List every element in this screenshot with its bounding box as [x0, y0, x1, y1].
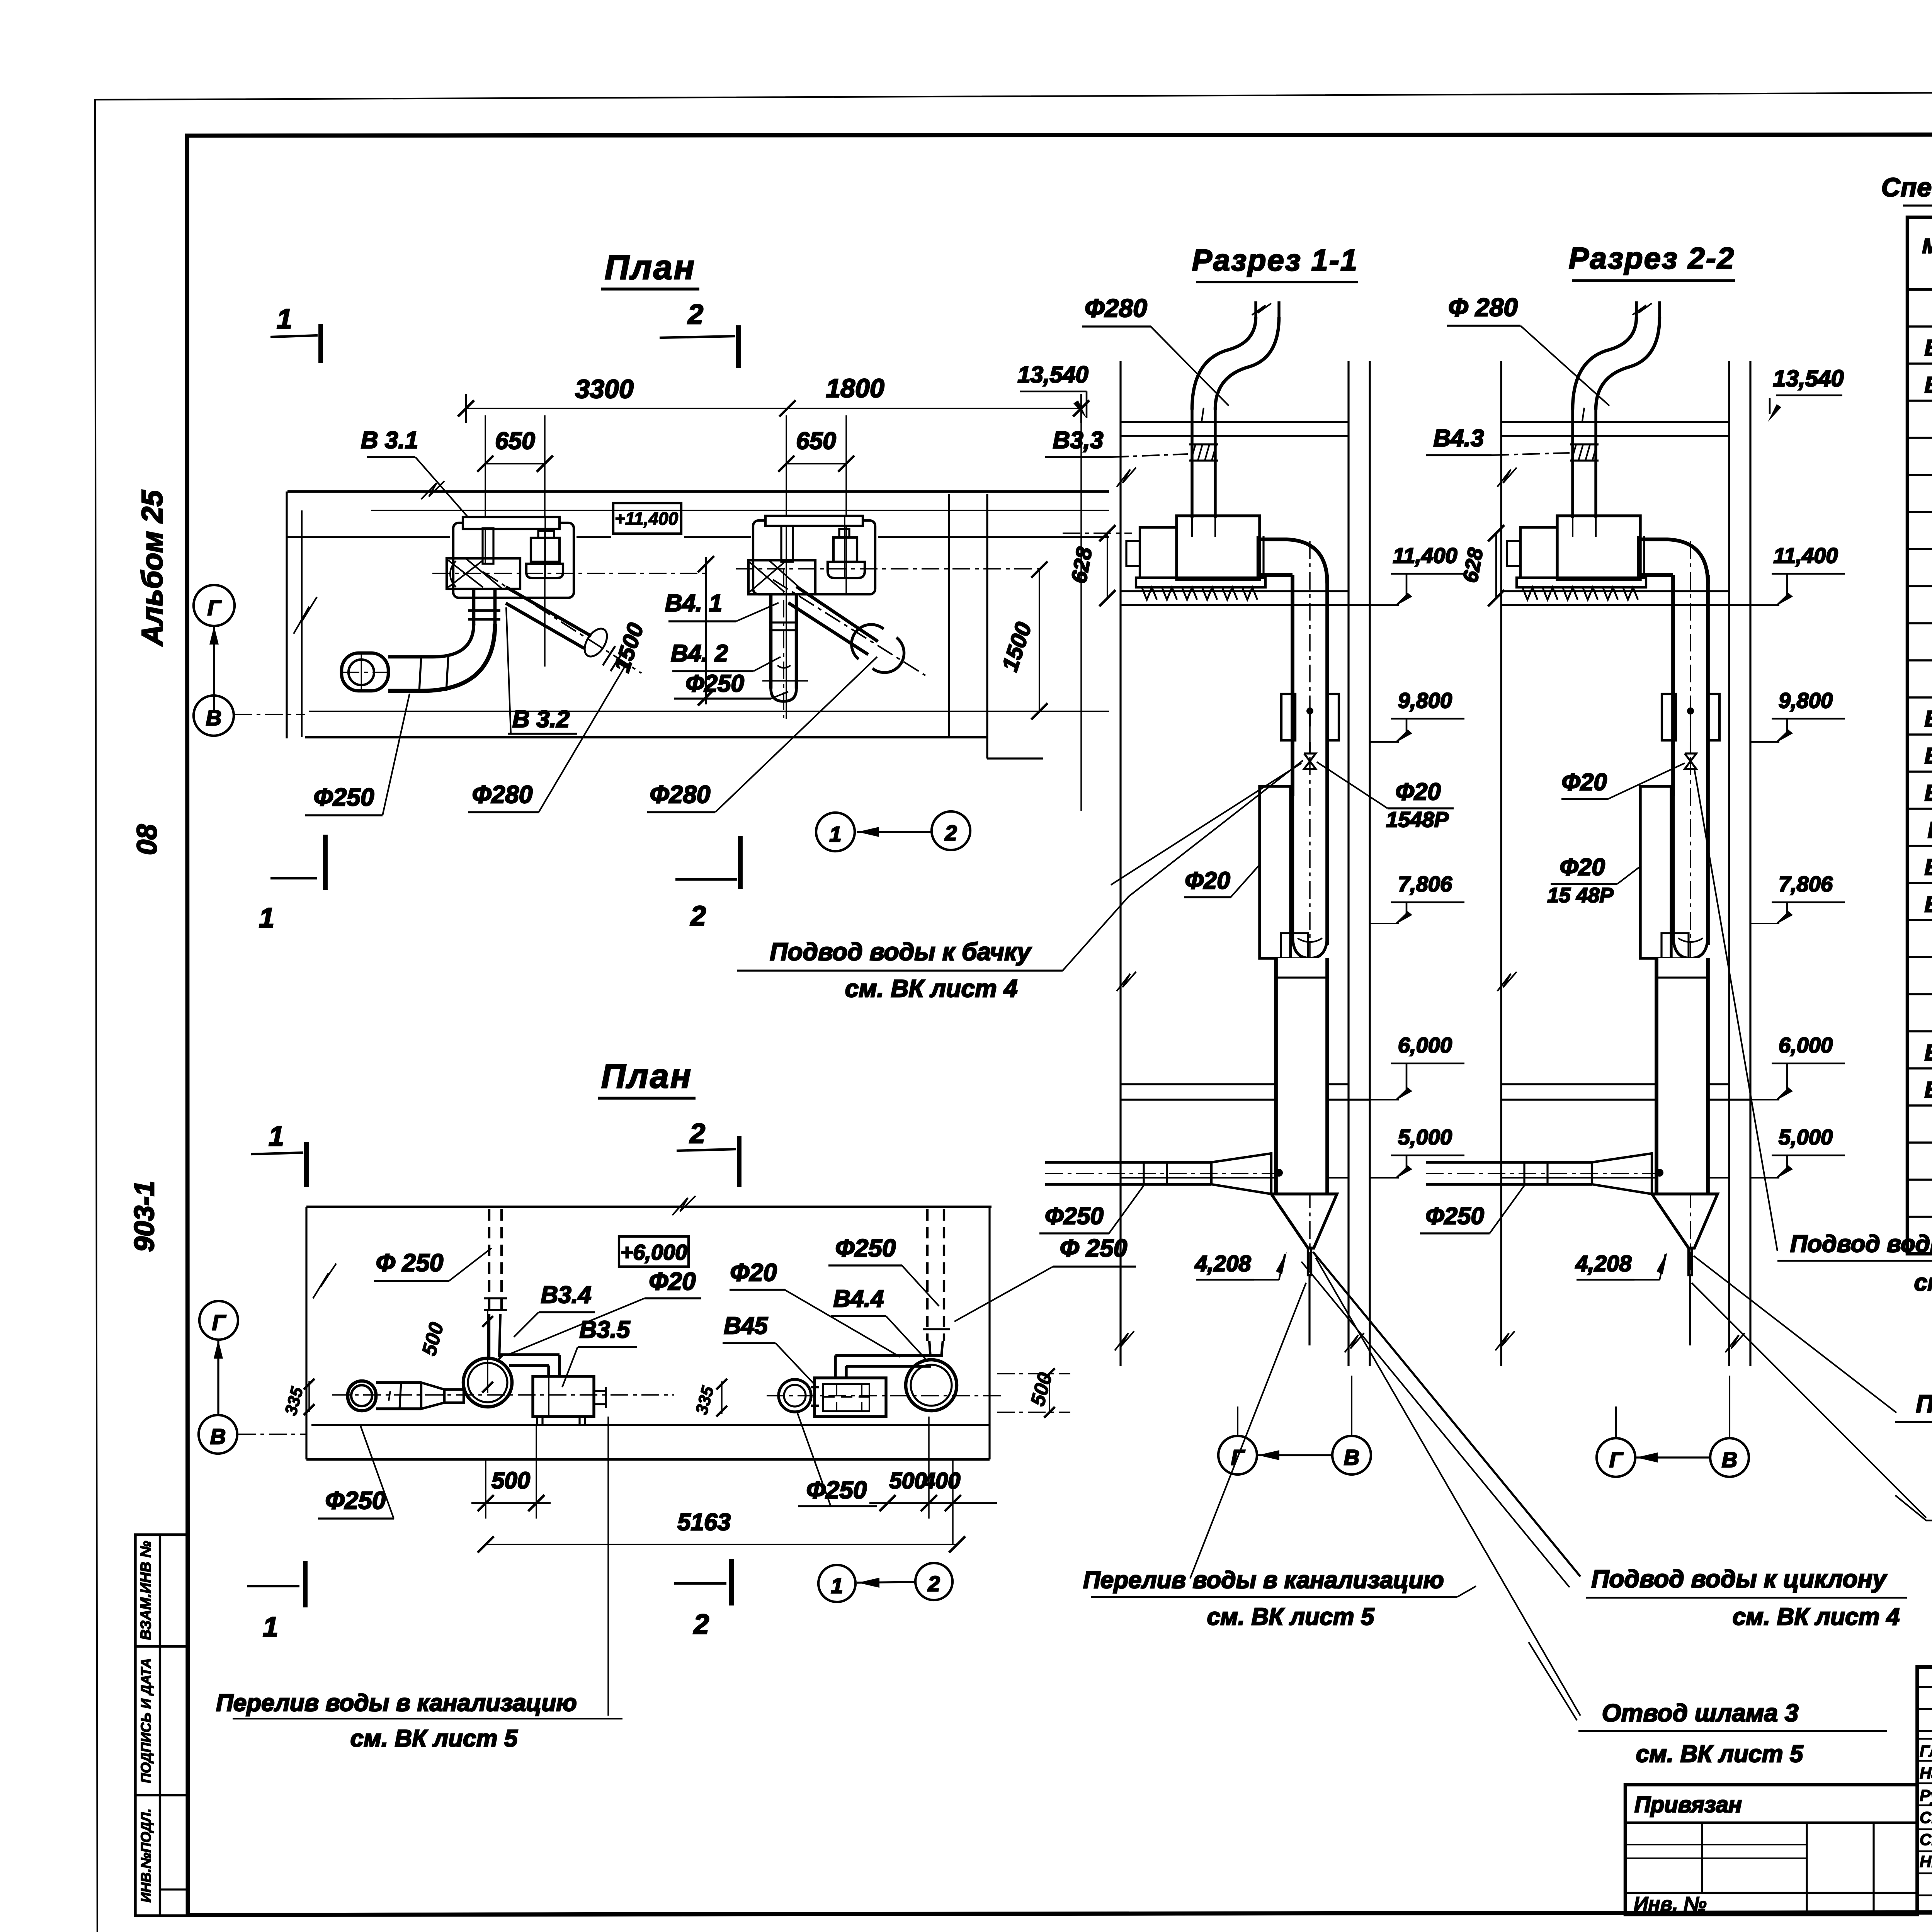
fan V3.1 elbow to horizontal pipe [388, 624, 495, 691]
svg-text:Отвод шлама 3: Отвод шлама 3 [1602, 1699, 1799, 1727]
svg-text:Ф20: Ф20 [1395, 779, 1440, 805]
section 1-1 S-bend to ph280 pipe [1192, 317, 1256, 410]
section 2-2 level 5000 line [1501, 1177, 1729, 1179]
V4.1 diagonal duct ph280 [796, 587, 878, 641]
svg-text:500: 500 [889, 1468, 927, 1493]
svg-text:Ф250: Ф250 [1425, 1203, 1484, 1230]
svg-text:Г: Г [1609, 1447, 1624, 1472]
lower plan bottom section mark 1 [247, 1585, 299, 1587]
lower dims 500 under left unit [485, 1459, 486, 1519]
svg-text:Ф 280: Ф 280 [1448, 293, 1518, 321]
section 2-2 chute pipe below [1658, 958, 1706, 1194]
riser-cyclone connectors right [929, 1341, 930, 1357]
svg-text:2: 2 [944, 821, 957, 845]
svg-text:1548Р: 1548Р [1386, 807, 1449, 832]
section 1-1 level 5000 line [1121, 1177, 1349, 1179]
svg-text:1: 1 [831, 1573, 843, 1598]
svg-text:7,806: 7,806 [1398, 872, 1452, 896]
section 1-1 wall break marks [1117, 468, 1136, 487]
svg-text:Ф280: Ф280 [650, 781, 711, 808]
top plan dimension 650 left [485, 463, 545, 464]
svg-text:2: 2 [693, 1609, 709, 1640]
svg-text:План: План [601, 1057, 692, 1095]
band break marks lower [313, 1264, 336, 1298]
top plan dimension 650 right [786, 463, 846, 464]
svg-text:Ф20: Ф20 [1185, 867, 1230, 894]
fan V4.1 strut [781, 526, 793, 562]
svg-text:500: 500 [492, 1468, 530, 1493]
svg-text:В4.3: В4.3 [1928, 818, 1932, 843]
svg-text:В 4.2: В 4.2 [1925, 743, 1932, 769]
svg-text:см. ВК лист 4: см. ВК лист 4 [845, 975, 1018, 1002]
V4.2 outlet pipe down [769, 594, 773, 689]
svg-text:1: 1 [263, 1612, 278, 1643]
lower plan room band [306, 1206, 992, 1208]
svg-text:В: В [1722, 1447, 1737, 1472]
svg-text:11,400: 11,400 [1393, 543, 1457, 568]
break marks on walls [294, 597, 317, 634]
cyclone V3.4 suction pipe flange [348, 1381, 376, 1411]
svg-text:В: В [1344, 1445, 1359, 1469]
axis G circle top plan [194, 585, 235, 626]
svg-text:9,800: 9,800 [1398, 688, 1452, 713]
section 1-1 dim 628 [1107, 533, 1108, 598]
svg-text:Ф20: Ф20 [1561, 769, 1607, 796]
svg-text:В4. 1: В4. 1 [665, 590, 722, 617]
section 2-2 fan inlet duct up [1571, 408, 1574, 518]
svg-text:Подвод воды к циклону: Подвод воды к циклону [1916, 1390, 1932, 1418]
svg-text:В 4.5: В 4.5 [1925, 1077, 1932, 1102]
top plan platform line [287, 536, 450, 538]
svg-text:650: 650 [796, 428, 836, 454]
axis circles 1-2 top plan [816, 813, 855, 851]
svg-text:Ф20: Ф20 [730, 1259, 777, 1286]
section 2-2 feed pipe ph250 [1426, 1161, 1592, 1163]
axis V line lower [238, 1434, 306, 1435]
fan V3.1 axis dashdot [432, 573, 707, 574]
svg-text:7,806: 7,806 [1779, 872, 1833, 896]
section 1-1 floor slab 11400 [1121, 590, 1349, 592]
fan V4.1 mounting frame [753, 520, 875, 594]
svg-text:5,000: 5,000 [1779, 1125, 1833, 1149]
fan V4.1 inlet box with hatch [748, 560, 815, 594]
svg-text:Перелив воды в канализацию: Перелив воды в канализацию [1083, 1567, 1444, 1594]
axis V dashdot line [234, 714, 305, 715]
section 2-2 S-bend to ph280 pipe [1573, 317, 1636, 410]
section 2-2 leaders to labels [1694, 769, 1777, 1251]
svg-text:Разрез 2-2: Разрез 2-2 [1569, 241, 1735, 275]
svg-text:В3.4: В3.4 [541, 1282, 592, 1308]
section 2-2 top elbow [1638, 539, 1708, 583]
section 2-2 cyclone tank [1640, 786, 1671, 958]
axis G circle lower plan [199, 1301, 238, 1340]
svg-text:Г: Г [212, 1310, 226, 1335]
title block signature rows [1917, 1686, 1932, 1688]
svg-text:Рук.гр.: Рук.гр. [1920, 1786, 1932, 1804]
svg-text:1: 1 [829, 822, 841, 846]
pipe from cyclone V4.4 left [835, 1354, 943, 1357]
svg-text:13,540: 13,540 [1773, 366, 1844, 391]
svg-text:ВЗАМ.ИНВ №: ВЗАМ.ИНВ № [138, 1541, 154, 1640]
svg-text:Ф250: Ф250 [325, 1486, 386, 1514]
svg-text:В 4.1: В 4.1 [1925, 372, 1932, 398]
section 2-2 walls [1500, 361, 1502, 1366]
svg-text:1800: 1800 [826, 374, 884, 403]
section 1-1 fan outlet flange [1257, 536, 1259, 578]
dim 1500 right unit [1039, 570, 1040, 711]
title block outer [1917, 1667, 1932, 1913]
svg-text:В 4.4: В 4.4 [1925, 892, 1932, 917]
section 1-1 leader podvod vody k bachku [1111, 763, 1301, 885]
svg-text:6,000: 6,000 [1398, 1033, 1452, 1057]
top plan bottom section mark 2 [675, 878, 737, 881]
dims 500 400 right [928, 1417, 930, 1519]
section 2-2 fan outlet flange [1637, 536, 1639, 578]
section 2-2 riser lower part and U-bottom [1672, 796, 1675, 945]
svg-text:1: 1 [269, 1121, 284, 1152]
svg-text:2: 2 [690, 901, 706, 932]
svg-text:В3.5: В3.5 [580, 1316, 631, 1343]
svg-text:В 3.2: В 3.2 [512, 706, 570, 733]
cyclone circle V4.4 [906, 1360, 957, 1411]
extension centerlines [485, 415, 486, 564]
svg-text:Ст.инж.: Ст.инж. [1920, 1808, 1932, 1827]
section 1-1 flex insert hatches [1189, 443, 1218, 445]
top plan bottom section mark 1 [270, 877, 317, 879]
svg-text:Инв. №: Инв. № [1634, 1893, 1707, 1915]
svg-text:Ф 250: Ф 250 [376, 1249, 444, 1277]
svg-text:В4.4: В4.4 [833, 1286, 884, 1312]
fan V4.1 axis dashdot [736, 568, 1039, 570]
section 2-2 fan block [1557, 516, 1640, 580]
axis through machines lower [332, 1394, 674, 1396]
svg-text:Спецификация отопительно-венти: Спецификация отопительно-вентиляционных … [1881, 173, 1932, 202]
axis G-V circles under section 2-2 [1597, 1438, 1635, 1477]
section 2-2 dim 628 [1495, 533, 1497, 598]
motor of V3.1 [538, 531, 554, 538]
svg-text:Ф250: Ф250 [806, 1476, 867, 1504]
dim 5163 [486, 1544, 957, 1545]
svg-text:Гл.инж.пр: Гл.инж.пр [1920, 1742, 1932, 1760]
svg-text:Подвод воды к бачку: Подвод воды к бачку [770, 938, 1032, 966]
svg-text:см. ВК лист 5: см. ВК лист 5 [1207, 1604, 1375, 1630]
svg-text:4,208: 4,208 [1575, 1251, 1632, 1276]
lower plan bottom section mark 2 [674, 1582, 726, 1585]
section 1-1 riser lower part and U-bottom [1291, 796, 1294, 945]
section 1-1 bracket 9800 [1281, 694, 1295, 740]
suction pipe flange end V3.1 [342, 653, 388, 691]
svg-text:В 3.2: В 3.2 [1925, 706, 1932, 731]
svg-text:В 3.5: В 3.5 [1925, 1040, 1932, 1065]
risers ph250 dashed left [488, 1209, 490, 1314]
axis to 628 dim [1063, 532, 1132, 534]
svg-text:5,000: 5,000 [1398, 1125, 1452, 1149]
svg-text:В45: В45 [724, 1313, 768, 1339]
svg-text:3300: 3300 [575, 374, 633, 404]
svg-text:Подвод воды к циклону: Подвод воды к циклону [1591, 1565, 1888, 1593]
svg-text:9,800: 9,800 [1779, 688, 1833, 713]
svg-text:2: 2 [689, 1118, 705, 1149]
svg-text:+11,400: +11,400 [615, 509, 679, 529]
section 2-2 valve on riser [1685, 753, 1696, 769]
section 1-1 riser duct [1291, 575, 1294, 796]
fan V3.1 strut [483, 528, 493, 564]
svg-text:2: 2 [687, 299, 703, 330]
V3.2 diagonal duct ph280 [506, 587, 591, 636]
fan V3.1 mounting frame [453, 523, 574, 598]
svg-text:1: 1 [277, 304, 292, 335]
dim 1500 left unit [705, 557, 707, 704]
svg-text:В 3.4: В 3.4 [1925, 855, 1932, 880]
svg-text:+6,000: +6,000 [621, 1240, 687, 1264]
svg-text:Ф250: Ф250 [1045, 1203, 1104, 1230]
svg-text:13,540: 13,540 [1017, 362, 1088, 388]
svg-text:903-1: 903-1 [129, 1181, 160, 1252]
svg-text:В4. 2: В4. 2 [671, 640, 728, 667]
section 1-1 slab 6000 [1121, 1083, 1349, 1085]
section 1-1 vibro springs [1142, 587, 1157, 600]
svg-text:Ф250: Ф250 [685, 670, 744, 697]
fan V4.1 top rail [765, 516, 863, 526]
section 1-1 hopper [1271, 1194, 1337, 1248]
svg-text:650: 650 [495, 428, 535, 454]
svg-text:15 48Р: 15 48Р [1547, 884, 1614, 907]
svg-text:1: 1 [259, 903, 274, 934]
svg-text:ИНВ.№ПОДЛ.: ИНВ.№ПОДЛ. [138, 1808, 154, 1902]
axis G-V circles under section 1-1 [1218, 1436, 1257, 1475]
svg-text:Ст.техн.: Ст.техн. [1920, 1830, 1932, 1849]
svg-text:Разрез 1-1: Разрез 1-1 [1192, 243, 1358, 277]
axis arrow lower [217, 1341, 219, 1414]
section 1-1 valve on riser [1304, 753, 1316, 769]
svg-text:Нач. отд.: Нач. отд. [1920, 1764, 1932, 1782]
section 1-1 chute pipe below [1277, 958, 1326, 1194]
svg-text:Ф 250: Ф 250 [1060, 1234, 1128, 1262]
svg-text:Ф250: Ф250 [835, 1234, 896, 1262]
section 2-2 riser duct [1671, 575, 1675, 796]
section 1-1 cyclone tank [1260, 786, 1291, 958]
margin stamp column [135, 1535, 188, 1916]
section 1-1 walls [1119, 361, 1121, 1366]
axis circles 1-2 lower plan [818, 1565, 855, 1602]
section 1-1 long leaders to bottom labels [1313, 1252, 1580, 1577]
svg-text:В 3.3: В 3.3 [1925, 781, 1932, 806]
section 1-1 fan block [1177, 516, 1260, 580]
top plan room band walls [287, 490, 1109, 493]
motor of V4.1 [839, 529, 849, 537]
svg-text:План: План [605, 248, 696, 286]
risers dashed right [926, 1209, 929, 1341]
svg-text:В 3.1: В 3.1 [361, 427, 418, 454]
svg-text:Ф250: Ф250 [314, 783, 374, 811]
svg-text:Альбом 25: Альбом 25 [136, 490, 169, 646]
section 2-2 bracket 9800 [1662, 694, 1676, 740]
right unit pipe and tank V4.5 [811, 1386, 819, 1388]
svg-text:2: 2 [927, 1571, 940, 1596]
axis arrow G-V [213, 627, 215, 713]
svg-text:6,000: 6,000 [1779, 1033, 1833, 1057]
axis V circle top plan [194, 696, 234, 736]
section 2-2 floor slab 11400 [1501, 590, 1729, 592]
spec table grid [1907, 217, 1932, 1254]
axis V circle lower plan [199, 1415, 237, 1454]
svg-text:В4.3: В4.3 [1434, 425, 1484, 452]
axis through right machines [767, 1395, 1005, 1396]
svg-text:Ф280: Ф280 [1085, 294, 1147, 322]
fan V3.1 inlet box with flex insert hatch [447, 558, 520, 589]
elevation box +6,000 [619, 1236, 689, 1267]
privjazan attachment table [1625, 1785, 1917, 1915]
cyclone circle V3.4 [463, 1358, 512, 1407]
svg-text:Перелив воды в канализацию: Перелив воды в канализацию [216, 1690, 577, 1716]
section 2-2 flex insert hatches [1570, 443, 1599, 445]
elevation box +11,400 [613, 503, 681, 534]
svg-text:см. ВК лист 4: см. ВК лист 4 [1733, 1604, 1900, 1630]
svg-text:см. ВК лист 4: см. ВК лист 4 [1914, 1269, 1932, 1296]
svg-text:4,208: 4,208 [1194, 1251, 1251, 1276]
section 1-1 fan inlet duct up [1190, 408, 1193, 518]
section 1-1 feed pipe ph250 [1045, 1161, 1211, 1163]
svg-text:08: 08 [132, 824, 163, 855]
section 2-2 roof slab 13540 [1501, 421, 1729, 423]
tank V3.5 box [533, 1376, 594, 1417]
section 1-1 top elbow [1258, 539, 1327, 583]
svg-text:см. ВК лист 5: см. ВК лист 5 [1636, 1741, 1804, 1767]
suction pipe joints [419, 657, 421, 691]
svg-text:Ф280: Ф280 [472, 781, 533, 808]
fan V3.1 top rail [463, 517, 560, 529]
svg-text:Г: Г [1231, 1445, 1245, 1469]
svg-text:400: 400 [923, 1468, 961, 1493]
svg-text:5163: 5163 [677, 1509, 731, 1536]
pipe from cyclone to tank V3.5 [500, 1353, 560, 1356]
section 2-2 hopper [1652, 1194, 1718, 1248]
top plan dimension 3300-1800 [466, 408, 1081, 409]
svg-text:Г: Г [207, 595, 222, 620]
right unit lower plan - flange circle [779, 1379, 811, 1412]
svg-text:11,400: 11,400 [1773, 543, 1838, 568]
section 1-1 roof slab 13540 [1121, 421, 1349, 423]
section 2-2 slab 6000 [1501, 1083, 1729, 1085]
fan V3.1 outlet pipe down [472, 589, 476, 625]
svg-text:Марка: Марка [1922, 235, 1932, 258]
svg-text:ПОДПИСЬ И ДАТА: ПОДПИСЬ И ДАТА [138, 1658, 154, 1783]
svg-text:Привязан: Привязан [1634, 1792, 1742, 1817]
svg-text:В 3.1: В 3.1 [1925, 335, 1932, 361]
svg-text:В: В [210, 1424, 226, 1449]
svg-text:Ф20: Ф20 [649, 1267, 696, 1295]
svg-text:В3,3: В3,3 [1053, 427, 1104, 454]
svg-text:Ф20: Ф20 [1560, 854, 1605, 881]
section 2-2 wall break marks [1497, 468, 1517, 487]
suction pipe left unit lower [376, 1381, 421, 1384]
svg-text:Н.контр.: Н.контр. [1920, 1852, 1932, 1871]
riser-cyclone solid connectors left [488, 1314, 490, 1357]
svg-text:см. ВК лист 5: см. ВК лист 5 [350, 1725, 518, 1752]
leader from tank V3.5 down [607, 1417, 609, 1716]
section 2-2 vibro springs [1522, 587, 1537, 600]
leader otvod shlama bottom line [1529, 1642, 1577, 1720]
